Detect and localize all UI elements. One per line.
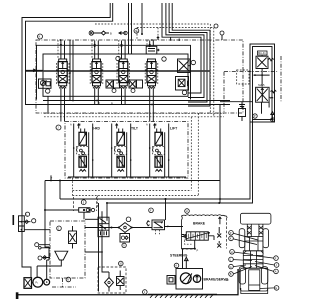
node F callout [149,208,154,213]
dash-dot boundary right of MA41 [280,56,282,102]
wire: J P-port stub [50,175,52,180]
node: port circle right pair 2 [220,31,224,35]
wire: J gallery bottom [68,176,186,178]
svg-text:B: B [155,123,157,127]
svg-text:W9: W9 [225,278,229,282]
pilot line: dashed verticals down right 1 [190,117,192,191]
node: gauge port P circle [253,114,257,118]
valve body: main control valve block [43,54,188,96]
node A callout steering [174,263,179,268]
wire: port pairs above K valves [61,41,153,60]
relief valve bottom-left [69,226,77,249]
junction dot on gallery [69,72,71,74]
figure margin tick [13,215,15,225]
svg-text:B: B [79,123,81,127]
callout K machine [229,236,257,244]
wire: K block left edge drop [47,96,49,113]
pilot dashed box left of MA41 [237,70,249,84]
engine hood [249,270,260,291]
callout H machine [230,250,253,255]
wire: line to pump circuit [24,229,50,231]
node: plug circle [271,118,275,122]
node circle above diamond [126,217,131,222]
spool valve 2 (bucket section) [90,59,103,88]
dash-dot pilot crossing MA41 [224,71,278,73]
wire: filter connections [102,267,109,292]
port tick right [221,35,223,40]
wire: return drop to filter box [101,211,103,269]
pilot line: dashed vertical right 2 [213,28,215,117]
priority valve box [98,217,109,237]
junction dot trunk F [165,198,167,200]
svg-text:P: P [254,114,256,118]
rear wheel left [239,267,245,284]
front chassis [245,237,263,251]
pilot dashed drop to spool 1 [57,40,59,59]
loader lift arm right [259,224,263,237]
closed port X lower [217,244,221,248]
counterweight line [249,284,260,286]
accumulator dash-dot box [50,221,85,278]
wire: right bundle line 3 [169,3,207,102]
pilot line: dashed return pair lower 2 [73,195,199,197]
svg-text:B: B [110,32,112,36]
node 1 callout bottom [143,290,148,295]
main relief valve K right [176,77,189,95]
callout P machine [229,231,258,241]
front chassis inner lines [245,237,263,251]
closed port X upper [217,234,221,238]
loader lift arm left [247,224,251,237]
wire: right bundle line 1 with nested corner [162,3,201,93]
loader bucket top view [240,213,271,224]
pump drive coupling [24,278,33,289]
solenoid valve assembly 5 [44,197,97,219]
wire: A/B drops below block v1 [61,88,65,122]
wire: P supply line under J [45,180,220,182]
callout F machine [256,256,278,261]
svg-text:3-RD: 3-RD [92,127,100,131]
junction dot gallery v4 [151,104,153,106]
spool valve J1 3RD [73,124,94,178]
svg-text:B: B [98,101,100,105]
svg-text:A: A [70,123,72,127]
wire: long drop line to bottom trunk [219,104,221,203]
wire: nested corner line 4 [172,3,210,106]
junction dot MA41 [261,74,263,76]
callout E machine [260,286,279,291]
pilot line: dashed drop to valve row 2 [157,28,159,41]
wire: gallery third [48,104,230,106]
wire: priority to filter drop [101,235,103,268]
svg-text:A: A [111,101,113,105]
node K callout [38,34,43,39]
check sub with gauge circles K3 [129,80,143,93]
rear body [240,268,268,291]
valve unit MA-41 inner body [253,47,273,120]
servo inlet connector [167,276,175,285]
wire: right bundle line 2 [166,3,204,98]
junction dot P [194,248,196,250]
wire: port pair through block v1 [70,40,73,101]
svg-text:BRAKE: BRAKE [193,222,206,226]
spool valve 1 (boom section) [56,59,69,88]
svg-text:H: H [186,209,188,213]
wire: line to filter circuit [85,227,152,229]
node: junction circle [124,31,127,34]
cross in circle [90,32,93,35]
junction dots upper gallery [94,45,96,47]
steering flow arrow [185,257,189,268]
valve assembly J boundary (dash-dot) [65,122,188,179]
junction dot trunk 2 [219,198,221,200]
filter bypass relief [117,271,125,291]
callout B machine [229,267,252,277]
brake/servo unit box [176,269,203,290]
node L callout [25,212,29,216]
wire [131,3,133,54]
node circle 1 [57,226,62,231]
bottom frame line [17,269,238,299]
relief valve sub K1 [39,79,52,93]
accumulator charge valve [120,232,130,247]
svg-text:K: K [230,237,232,241]
check diamond at shutoff [24,220,30,224]
suction strainer funnel [37,251,68,278]
spool valve J3 LIFT [149,124,170,178]
wire: links to box [39,245,50,260]
node 8 callout [66,277,71,282]
front wheel left [239,229,245,248]
svg-text:A: A [275,270,277,274]
pilot line: dashed vertical right 1 [209,24,211,113]
front wheel right [263,229,269,248]
callout A machine [255,266,278,274]
dash-dot segment under pump [52,278,76,287]
valve body outer border [37,45,191,99]
wire: drop from trunk to priority [106,203,108,221]
node: port circle N [134,28,139,33]
svg-text:N: N [135,29,137,33]
pump main circle P1 [33,277,43,287]
dash-dot boundary left of MA41 [223,72,225,112]
svg-text:P: P [51,176,53,180]
plug cross [271,118,275,122]
callout J machine [255,262,279,268]
wire: single port line to top [141,3,143,34]
pilot dashed drop left [96,196,98,208]
pilot dashed drop to spool 3 [118,40,120,59]
relief valve MA41 upper [256,55,274,75]
wire: inlet stub left [26,69,44,72]
brake unit dashed right edge [182,218,227,249]
junction dot top dashdot [60,39,62,41]
junction dot top dashdot 2 [151,39,153,41]
svg-text:LIFT: LIFT [170,127,178,131]
wire: tank return trunk, top corner to left frame down to bottom frame [22,3,110,278]
pilot cap marks [148,49,160,52]
svg-text:B: B [230,272,232,276]
label box MA-41 [258,51,268,55]
wire: gallery second [43,100,230,102]
wire: feed to priority top [85,218,98,220]
wire: drops below v2 v3 [95,88,125,105]
pump second circle [44,279,50,285]
node H callout [185,209,190,214]
wire: P drop from J1 [44,181,46,223]
brake unit torn-edge boundary [182,215,228,249]
wire: A/B drops below block v4 [150,88,154,122]
wire: pump feed from J block [45,222,49,279]
pilot line: dashed verticals down right 2 [197,113,199,195]
wire: cylinder line pair to top edge (B) [128,3,130,54]
pilot line: dashed drop to valve row [136,28,138,41]
node J callout [56,125,61,130]
wire: box to filter link [85,251,102,253]
center frame [243,251,263,268]
wire: internal parallel gallery (gray) [26,70,210,72]
pilot line: dashed box top second [137,27,214,29]
pilot line: dashed horizontals to MA41 area 1 [44,112,224,114]
valve assembly K boundary (dash-dot) [36,40,243,113]
pilot line: dashed return pair lower 1 [73,190,192,192]
node K2 callout [32,219,36,223]
wire: P to servo path [183,249,195,269]
svg-text:P: P [197,249,199,253]
junction dot line [111,227,113,229]
node small circle [39,247,42,250]
junction dot line end [141,33,143,35]
spool valve J2 TILT [111,124,132,178]
figure edge hatched band [148,294,217,298]
node M circle right of v4 [162,57,166,61]
brake valve spool [164,227,214,245]
wire: inner return line paralleling frame [26,3,113,105]
wire: main trunk lower [107,120,253,204]
articulation waist [243,251,263,254]
wire: MA5 drops [262,102,270,114]
junction dot gallery v2 [96,100,98,102]
wire: vertical drop x60 from P line [59,181,61,200]
svg-text:H: H [231,250,233,254]
anticavitation valve upper right [178,59,196,73]
valve unit MA-41 outer body [250,44,275,122]
junction dot trunk x219 [218,202,220,204]
wire: drop to charging valve F [165,199,167,220]
pilot line: dashed box top [95,23,210,25]
svg-text:A: A [175,264,177,268]
wire: brake valve P drop [194,240,196,248]
check sub with gauge circles K2 [106,56,120,92]
svg-text:K: K [39,35,41,39]
shutoff valve on left frame [19,216,25,232]
svg-text:P: P [230,231,232,235]
pressure valve MA-5 [256,87,277,102]
wire: feed from drop line to MA41 [220,101,253,103]
check valve diamond [118,223,133,233]
port arrowheads above valves [60,44,151,46]
reducing valve left of MA41 [239,102,246,121]
node M callout [35,243,39,247]
callout L machine [229,257,252,262]
wire: closed port stem [218,227,220,244]
wire: junction row MA41 [253,75,269,86]
node: port circle with cross [89,31,93,35]
svg-text:E: E [275,286,277,290]
pilot dashed rise at x72.5 [72,178,74,196]
junction dot trunk priority [106,202,108,204]
junction dot on gallery [72,100,74,102]
pilot cap valve 4 [146,46,157,54]
wire: main trunk upper [60,122,250,199]
svg-text:A: A [146,123,148,127]
port check diamond [94,31,110,35]
svg-text:MA-5: MA-5 [258,83,265,87]
svg-text:STEERING: STEERING [170,254,188,258]
junction dot trunk [165,198,167,200]
pilot dashed drop to spool 2 [91,40,93,59]
flow control valve F [147,220,169,234]
rear bumper [241,288,268,294]
check cone symbol [271,112,274,118]
spool valve 3 (aux section) [117,59,130,88]
svg-text:TILT: TILT [131,127,139,131]
wire: long return drop to filter left [98,203,100,292]
pilot dashed drop to spool 4 [146,40,148,46]
center frame lines [243,251,263,268]
port arrow A [119,32,126,35]
return arrow up right of brake [219,217,222,224]
port tick marks [157,37,179,42]
pilot line: dashed horizontals to MA41 area 2 [44,116,224,118]
filter dashed box [98,267,126,293]
rear wheel right [261,267,267,284]
node: port circle right pair 1 [214,24,218,28]
svg-text:MA-41: MA-41 [258,51,266,55]
node 10 callout [119,261,124,266]
callout G machine [229,264,246,269]
spool valve 4 (section 4) [145,59,158,88]
junction dot P line [59,180,61,182]
svg-text:G: G [230,265,232,269]
filter check diamond [105,278,114,288]
node B callout [38,256,42,260]
